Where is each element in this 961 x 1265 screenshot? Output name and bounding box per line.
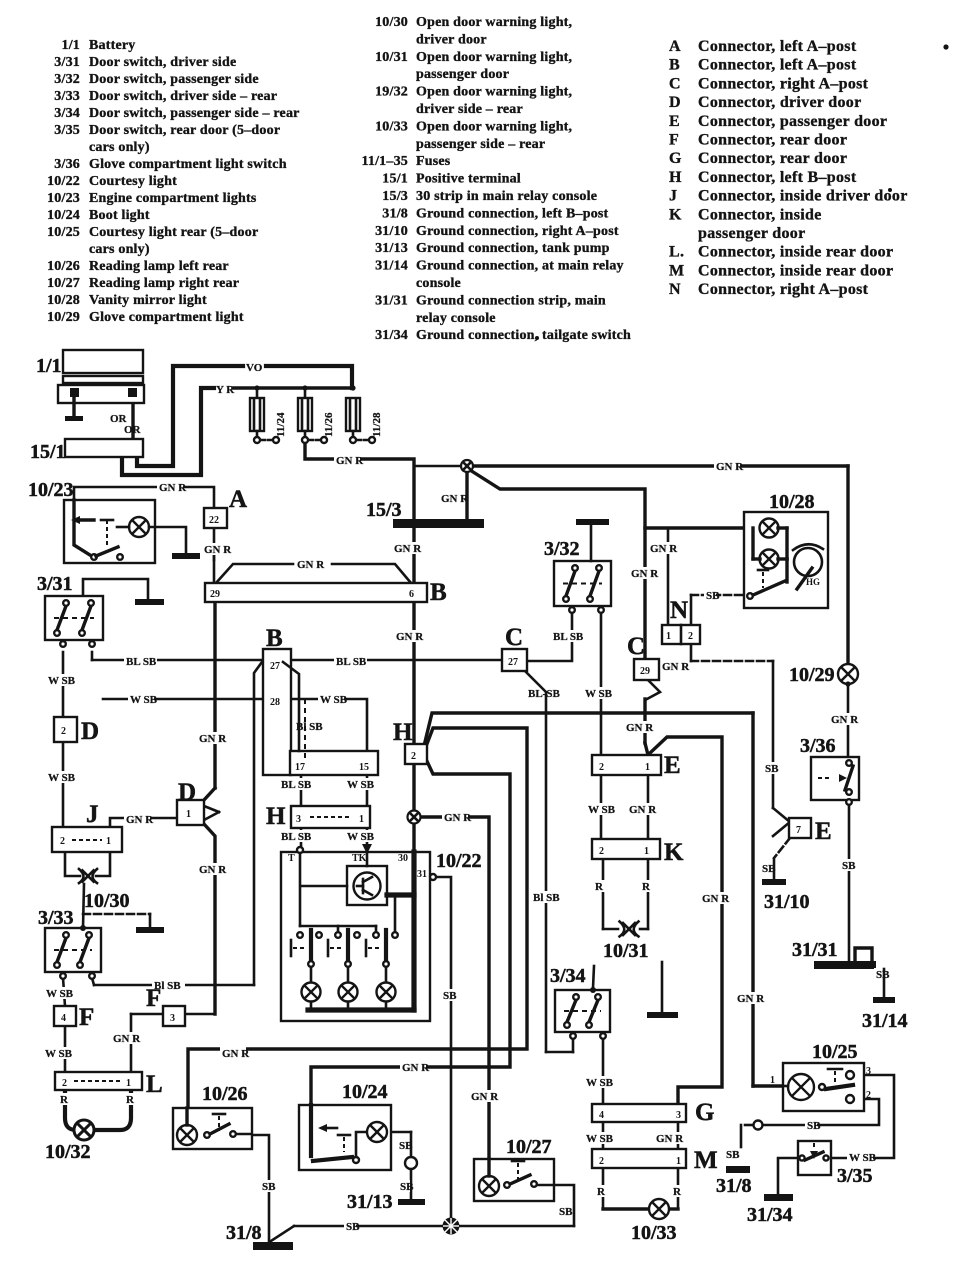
wire L to 10/32 lamp [65, 1090, 131, 1130]
svg-text:T: T [288, 853, 295, 864]
connector M [592, 1147, 718, 1174]
svg-text:31/8: 31/8 [226, 1222, 262, 1244]
svg-text:W SB: W SB [46, 988, 74, 1000]
ground 10/23 [172, 553, 200, 559]
wire junction diagonal to C29 branch [470, 470, 645, 658]
svg-text:10/23: 10/23 [28, 479, 74, 501]
label GN R 10/24 feed [400, 1061, 430, 1074]
svg-text:passenger door: passenger door [416, 67, 509, 82]
boot lamp 10/32 [45, 1120, 94, 1163]
svg-text:passenger door: passenger door [698, 225, 805, 242]
wire N pin2 up SB to 10/28 switch [691, 595, 744, 625]
label Y R [216, 384, 235, 396]
svg-text:10/30: 10/30 [84, 890, 130, 912]
svg-text:N: N [670, 597, 688, 624]
svg-text:2: 2 [599, 762, 604, 773]
svg-text:3: 3 [866, 1066, 871, 1077]
svg-text:10/25: 10/25 [812, 1041, 858, 1063]
svg-text:C: C [627, 633, 645, 660]
label SB above E7 [763, 762, 779, 775]
svg-text:10/33: 10/33 [631, 1222, 677, 1244]
svg-text:K: K [664, 839, 684, 866]
svg-text:2: 2 [866, 1090, 871, 1101]
svg-text:GN R: GN R [396, 631, 424, 643]
connector E [592, 752, 681, 779]
svg-text:1: 1 [186, 809, 191, 820]
svg-text:10/27: 10/27 [47, 276, 80, 291]
fuse 11/28 [346, 385, 383, 443]
svg-text:W SB: W SB [585, 688, 613, 700]
svg-text:B: B [430, 579, 447, 606]
svg-text:GN R: GN R [394, 543, 422, 555]
svg-text:SB: SB [706, 590, 720, 602]
svg-text:3: 3 [170, 1013, 175, 1024]
svg-text:W SB: W SB [320, 694, 348, 706]
svg-text:GN R: GN R [159, 482, 187, 494]
svg-text:Open door warning light,: Open door warning light, [416, 15, 572, 30]
labels between G and M [584, 1132, 684, 1145]
svg-text:3: 3 [676, 1110, 681, 1121]
svg-text:30: 30 [398, 853, 408, 864]
svg-text:M: M [694, 1147, 718, 1174]
connector F3 [146, 985, 185, 1026]
svg-text:F: F [79, 1004, 94, 1031]
svg-text:W SB: W SB [45, 1048, 73, 1060]
svg-text:1: 1 [770, 1075, 775, 1086]
connector L [55, 1071, 163, 1098]
svg-text:31/10: 31/10 [375, 224, 408, 239]
battery 1/1 [36, 350, 144, 421]
wire 3/32 left pin to C27 [527, 612, 572, 661]
svg-text:2: 2 [60, 836, 65, 847]
svg-text:Connector, right A–post: Connector, right A–post [698, 281, 869, 298]
svg-text:GN R: GN R [444, 812, 472, 824]
svg-text:GN R: GN R [297, 559, 325, 571]
svg-text:J: J [669, 188, 677, 205]
wire junction to 15/3 bar [414, 466, 467, 520]
label GN R below 15/3 [392, 542, 422, 555]
svg-text:driver door: driver door [416, 32, 487, 47]
svg-text:10/31: 10/31 [603, 940, 649, 962]
label BL-SB diagonal [528, 688, 560, 700]
svg-text:10/29: 10/29 [789, 664, 835, 686]
courtesy light 10/22 [281, 850, 482, 1021]
wire 10/25 pin3 to 3/35 W SB [830, 1075, 894, 1158]
svg-text:L.: L. [669, 244, 684, 261]
svg-text:GN R: GN R [716, 461, 744, 473]
svg-text:R: R [595, 881, 604, 893]
label OR [110, 413, 142, 436]
label SB at 31/31 [874, 968, 890, 981]
svg-text:27: 27 [508, 657, 518, 668]
label GN R trapezoid [295, 558, 325, 571]
svg-text:11/26: 11/26 [323, 412, 335, 437]
labels between E and K [586, 803, 657, 816]
ground 31/8 bottom [226, 1222, 293, 1250]
svg-text:Ground connection, at main rel: Ground connection, at main relay [416, 259, 624, 274]
connector circle 31/13 [405, 1157, 417, 1169]
ground bar 3/32 [576, 519, 609, 525]
svg-text:10/26: 10/26 [47, 259, 80, 274]
svg-text:Connector, inside driver door: Connector, inside driver door [698, 188, 908, 205]
svg-text:10/26: 10/26 [202, 1083, 248, 1105]
positive terminal 15/1 [30, 439, 143, 463]
svg-text:SB: SB [346, 1221, 360, 1233]
wire 15/1 output loop Y R [122, 388, 353, 475]
svg-text:W SB: W SB [48, 675, 76, 687]
svg-text:10/22: 10/22 [47, 174, 80, 189]
svg-text:Open door warning light,: Open door warning light, [416, 50, 572, 65]
junction star SB [443, 1218, 460, 1235]
svg-text:BL SB: BL SB [126, 656, 157, 668]
label W SB mid [318, 693, 348, 706]
ground 31/13 [347, 1191, 425, 1213]
svg-text:2: 2 [599, 1156, 604, 1167]
svg-text:Connector, driver door: Connector, driver door [698, 94, 861, 111]
labels below B connector [279, 778, 375, 791]
svg-text:1: 1 [676, 1156, 681, 1167]
svg-text:31/13: 31/13 [375, 241, 408, 256]
svg-text:BL-SB: BL-SB [528, 688, 560, 700]
svg-text:R: R [126, 1094, 135, 1106]
svg-text:15/3: 15/3 [382, 189, 408, 204]
svg-text:Glove compartment light: Glove compartment light [89, 310, 244, 325]
labels W SB left column [46, 674, 76, 784]
svg-text:Open door warning light,: Open door warning light, [416, 119, 572, 134]
svg-text:R: R [597, 1186, 606, 1198]
label SB above 31/8 [260, 1180, 276, 1193]
svg-text:17: 17 [295, 762, 305, 773]
label GN R right of C29 [662, 661, 690, 673]
wire N pin2 down to SB corridor [691, 644, 773, 808]
svg-text:B: B [669, 57, 680, 74]
wire B bus trapezoid GN R [216, 564, 411, 583]
svg-text:D: D [81, 718, 99, 745]
wire SB bottom run to junction and 10/27 [294, 1185, 574, 1226]
svg-text:F: F [146, 985, 161, 1012]
wire 10/23 lamp to ground [149, 527, 186, 554]
wire J to 10/30 loop [65, 852, 110, 876]
svg-text:4: 4 [599, 1110, 604, 1121]
label GN R above 10/27 [469, 1090, 499, 1103]
wire fuse rail GN R to 15/3 [305, 444, 414, 520]
svg-text:3: 3 [296, 814, 301, 825]
wire E1 to K1 GN R [647, 775, 650, 839]
svg-text:Ground connection strip, main: Ground connection strip, main [416, 293, 606, 308]
label SB at 31/8 right [724, 1148, 740, 1161]
connector J [52, 801, 122, 852]
svg-text:Reading lamp left rear: Reading lamp left rear [89, 259, 229, 274]
svg-text:27: 27 [270, 661, 280, 672]
label W SB above G [584, 1076, 614, 1089]
connector B vertical [263, 625, 378, 775]
wire GN R C29 to E1 [645, 699, 648, 755]
svg-text:31/14: 31/14 [862, 1010, 908, 1032]
svg-text:GN R: GN R [471, 1091, 499, 1103]
wire 3/31 ground link [83, 579, 148, 598]
svg-text:2: 2 [688, 631, 693, 642]
10/22 pin 30 [398, 853, 408, 864]
svg-text:Glove compartment light switch: Glove compartment light switch [89, 157, 287, 172]
connector C29 [627, 633, 659, 680]
warning light 10/30 [79, 869, 130, 912]
svg-text:3/32: 3/32 [544, 538, 580, 560]
ground 3/33 [136, 927, 164, 933]
svg-text:G: G [669, 150, 682, 167]
svg-text:10/23: 10/23 [47, 191, 80, 206]
svg-text:Reading lamp right rear: Reading lamp right rear [89, 276, 239, 291]
wire 10/24 to 31/13 [391, 1132, 411, 1199]
svg-text:Open door warning light,: Open door warning light, [416, 85, 572, 100]
fuse 11/24 [250, 385, 287, 443]
label SB dash 10/25 [754, 1119, 822, 1132]
wire H fan line 3 down corridor to 10/24 feed [311, 757, 510, 1105]
svg-text:C: C [505, 624, 523, 651]
svg-text:J: J [86, 801, 99, 828]
svg-text:SB: SB [559, 1206, 573, 1218]
wire SB taper into E7 [773, 808, 790, 836]
10/22 pin TK [352, 844, 372, 864]
svg-text:Connector, left B–post: Connector, left B–post [698, 169, 857, 186]
label SB at N [704, 589, 720, 602]
svg-text:C: C [669, 75, 681, 92]
connector A [204, 486, 247, 528]
label GN R at J [124, 813, 154, 826]
svg-text:Ground connection, left B–post: Ground connection, left B–post [416, 206, 609, 221]
svg-text:Bl SB: Bl SB [533, 892, 560, 904]
svg-text:11/1–35: 11/1–35 [361, 154, 408, 169]
10/22 lamps [302, 967, 396, 1002]
svg-text:SB: SB [726, 1149, 740, 1161]
wire W SB 3/34 to G4 [546, 1038, 603, 1104]
door switch 3/35 [798, 1141, 873, 1187]
10/22 switch contacts [297, 932, 398, 938]
wire 10/30 to 3/33 [83, 884, 84, 928]
svg-text:Bl SB: Bl SB [296, 721, 323, 733]
label BL SB 3/33 [152, 979, 185, 992]
bus connector B [205, 579, 447, 606]
svg-text:30 strip in main relay console: 30 strip in main relay console [416, 189, 597, 204]
wire E1 diagonal up to G3 corridor [650, 737, 722, 1104]
ground 31/34 [747, 1194, 793, 1226]
connector G [592, 1099, 714, 1126]
wire F3 links [131, 1014, 215, 1072]
svg-text:10/22: 10/22 [436, 850, 482, 872]
svg-text:2: 2 [411, 751, 416, 762]
svg-text:1: 1 [645, 762, 650, 773]
svg-text:31/10: 31/10 [764, 891, 810, 913]
connector D1 [177, 779, 204, 825]
svg-text:E: E [815, 818, 832, 845]
svg-text:3/31: 3/31 [37, 573, 73, 595]
svg-text:W SB: W SB [586, 1133, 614, 1145]
svg-text:4: 4 [61, 1013, 66, 1024]
wire GN R feed to 10/28 and N [645, 528, 760, 625]
svg-text:10/24: 10/24 [47, 208, 80, 223]
svg-text:6: 6 [409, 589, 414, 600]
svg-text:Ground connection, tank pump: Ground connection, tank pump [416, 241, 610, 256]
svg-text:Vanity mirror light: Vanity mirror light [89, 293, 207, 308]
svg-text:GN R: GN R [441, 493, 469, 505]
ground 31/10 [762, 860, 810, 913]
svg-text:cars only): cars only) [89, 242, 150, 257]
svg-text:1/1: 1/1 [36, 355, 62, 377]
svg-text:GN R: GN R [737, 993, 765, 1005]
door switch 3/34 [550, 965, 610, 1039]
svg-text:N: N [669, 281, 681, 298]
label GN R above H [394, 630, 424, 643]
10/22 pin T [288, 847, 303, 864]
svg-text:D: D [669, 94, 681, 111]
label BL SB corridor [531, 891, 564, 904]
svg-text:Ground connection, tailgate sw: Ground connection, tailgate switch [416, 328, 631, 343]
svg-text:G: G [695, 1099, 714, 1126]
wire G3 M1 10/33 right [677, 1122, 680, 1209]
connector H [393, 719, 427, 764]
label GN R near 668 vertical [648, 542, 678, 555]
wire G4 M2 10/33 left [602, 1122, 605, 1209]
wire SB from 10/22 pin 31 [436, 877, 451, 1218]
svg-text:GN R: GN R [402, 1062, 430, 1074]
label GN R junction branch [442, 811, 472, 824]
wire BL SB 3/31 to C27 [92, 652, 502, 660]
svg-text:3/32: 3/32 [54, 72, 80, 87]
svg-text:3/33: 3/33 [38, 907, 74, 929]
label W SB above F4 [44, 987, 74, 1000]
label GN R above 3/36 [829, 713, 859, 726]
label GN R 10/26 feed [220, 1047, 250, 1060]
svg-text:31/31: 31/31 [792, 939, 838, 961]
svg-text:Connector, inside: Connector, inside [698, 206, 822, 223]
label BL SB inside B [296, 721, 323, 733]
svg-text:28: 28 [270, 697, 280, 708]
label GN R above E1 [624, 721, 654, 734]
svg-text:3/31: 3/31 [54, 55, 80, 70]
svg-text:3/35: 3/35 [54, 123, 80, 138]
svg-text:VO: VO [246, 362, 263, 374]
svg-text:2: 2 [61, 726, 66, 737]
svg-text:10/28: 10/28 [47, 293, 80, 308]
wire W SB B28 row [103, 699, 367, 752]
10/22 switch blades [308, 930, 389, 967]
fuse 11/26 [298, 385, 335, 443]
svg-text:GN R: GN R [631, 568, 659, 580]
wire BL SB bypass B27 to 3/33 [92, 662, 262, 985]
svg-text:11/28: 11/28 [371, 412, 383, 437]
label SB right of 10/27 [557, 1205, 573, 1218]
reading lamp 10/26 [173, 1083, 252, 1149]
label SB below 3/36 [840, 859, 856, 872]
svg-text:BL SB: BL SB [553, 631, 584, 643]
svg-text:W SB: W SB [48, 772, 76, 784]
wire battery positive to 15/1 (OR) [131, 395, 134, 439]
svg-text:1/1: 1/1 [62, 38, 81, 53]
10/22 switch actuators [291, 940, 382, 956]
svg-text:A: A [229, 486, 247, 513]
wire W SB 3/32 down to E2 K2 10/31 [593, 612, 618, 988]
svg-text:GN R: GN R [126, 814, 154, 826]
label BL SB left [124, 655, 157, 668]
svg-text:Connector, passenger door: Connector, passenger door [698, 113, 887, 130]
junction X at H [408, 811, 421, 824]
label W SB under 3/32 [583, 687, 613, 700]
svg-text:R: R [673, 1186, 682, 1198]
wire 3/33 ground dash [83, 914, 150, 927]
svg-text:31: 31 [417, 869, 427, 880]
svg-text:OR: OR [124, 424, 142, 436]
svg-text:SB: SB [443, 990, 457, 1002]
wire B29 GN R down left corridor [204, 602, 215, 1014]
wire W SB 3/31 down to D and J [62, 652, 65, 827]
connector D2 [54, 717, 99, 745]
wire A to B bus and branch [213, 545, 216, 560]
reading lamp 10/27 [474, 1136, 554, 1201]
wire GN R B6 down to H2 [412, 602, 415, 745]
vanity mirror light 10/28 [744, 491, 828, 608]
svg-text:7: 7 [796, 825, 801, 836]
svg-text:15: 15 [359, 762, 369, 773]
label GN R x722 [700, 892, 730, 905]
engine compartment lights 10/23 [28, 479, 155, 563]
svg-text:2: 2 [62, 1078, 67, 1089]
label GN R x753 [735, 992, 765, 1005]
svg-text:Connector, rear door: Connector, rear door [698, 132, 847, 149]
svg-text:15/3: 15/3 [366, 499, 402, 521]
svg-text:GN R: GN R [629, 804, 657, 816]
label SB 10/24 right [397, 1139, 413, 1152]
svg-text:Courtesy light: Courtesy light [89, 174, 177, 189]
svg-text:1: 1 [644, 846, 649, 857]
svg-text:E: E [664, 752, 681, 779]
svg-text:3/34: 3/34 [550, 965, 586, 987]
svg-text:Connector, inside rear door: Connector, inside rear door [698, 262, 893, 279]
svg-text:TK: TK [352, 853, 367, 864]
svg-text:M: M [669, 262, 684, 279]
wire 3/36 to 31/31 SB [848, 806, 851, 961]
svg-text:19/32: 19/32 [375, 85, 408, 100]
10/22 relay [301, 852, 414, 905]
svg-text:E: E [669, 113, 680, 130]
label SB bottom run [344, 1220, 360, 1233]
svg-text:31/8: 31/8 [382, 206, 408, 221]
svg-text:BL SB: BL SB [281, 831, 312, 843]
svg-text:driver side – rear: driver side – rear [416, 102, 523, 117]
svg-text:Positive terminal: Positive terminal [416, 172, 521, 187]
connector C27 [502, 624, 527, 671]
wire H3 H1 into 10/22 [301, 828, 367, 852]
svg-text:10/28: 10/28 [769, 491, 815, 513]
svg-text:W SB: W SB [849, 1152, 877, 1164]
svg-text:31/34: 31/34 [375, 328, 408, 343]
svg-text:Courtesy light rear (5–door: Courtesy light rear (5–door [89, 225, 258, 240]
ground 31/14 [862, 969, 908, 1032]
svg-text:11/24: 11/24 [275, 412, 287, 437]
wire 3/35 to ground 31/34 [778, 1158, 798, 1195]
svg-text:R: R [60, 1094, 69, 1106]
svg-text:GN R: GN R [199, 733, 227, 745]
svg-text:HG: HG [806, 577, 820, 587]
svg-text:Ground connection, right A–pos: Ground connection, right A–post [416, 224, 619, 239]
label SB corridor x451 [441, 989, 457, 1002]
svg-text:GN R: GN R [831, 714, 859, 726]
svg-text:1: 1 [666, 631, 671, 642]
svg-text:10/27: 10/27 [506, 1136, 552, 1158]
10/22 lamp bus and GN R feed [308, 852, 414, 1010]
svg-text:Door switch, passenger side –: Door switch, passenger side – rear [89, 106, 300, 121]
wire 10/26 switch to 31/8 SB [250, 1135, 294, 1241]
door switch 3/33 [38, 907, 101, 979]
svg-text:W SB: W SB [586, 1077, 614, 1089]
